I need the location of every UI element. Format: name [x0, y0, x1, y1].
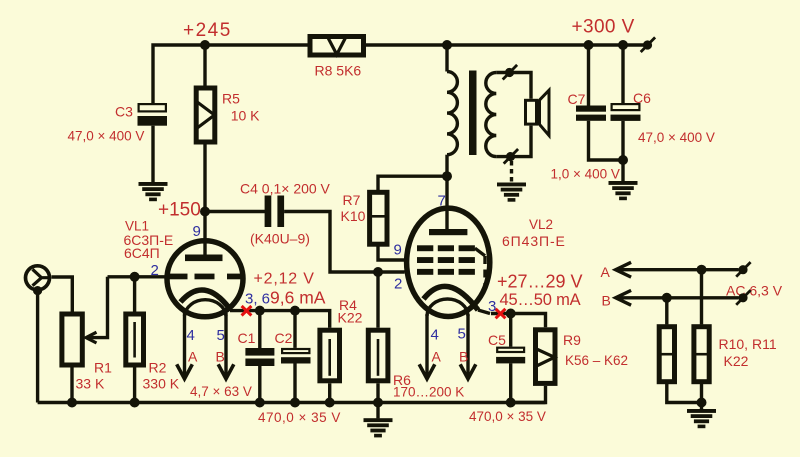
VL2 anode bar [429, 229, 467, 235]
arrow head bus B [616, 290, 632, 305]
speaker horn [540, 90, 550, 135]
svg-text:1,0 × 400 V: 1,0 × 400 V [551, 167, 620, 182]
node dot R2 bottom [130, 398, 140, 408]
svg-text:K22: K22 [338, 310, 363, 326]
node dot at C6 top [618, 40, 628, 50]
VL2 grid g1 dashes [417, 269, 433, 275]
wire: secondary bottom lead to speaker [496, 126, 531, 157]
svg-text:A: A [188, 349, 198, 365]
wire: VL1 heater leg pin 4 with arrow A [177, 313, 193, 379]
svg-text:470,0 × 35 V: 470,0 × 35 V [469, 409, 546, 424]
VL2 heater arc [427, 299, 468, 316]
capacitor C3 [138, 104, 168, 126]
capacitor C1 [245, 311, 274, 403]
connector bus A [736, 262, 750, 277]
wire: VL1 heater leg pin 5 with arrow B [218, 313, 234, 379]
node dot R2 top [130, 272, 140, 282]
connector secondary top [503, 65, 517, 80]
svg-text:C5: C5 [488, 332, 506, 348]
VL2 grid g3 dashes [417, 245, 433, 251]
node dot C5 bottom [506, 398, 516, 408]
node dot R11 top on bus A [697, 265, 707, 275]
node dot C2 bottom [290, 398, 300, 408]
resistor R6 [368, 272, 388, 403]
connector +300V supply pin [641, 37, 655, 52]
VL2 g3 internal tie diagonal top [475, 248, 485, 256]
connector secondary bottom [504, 149, 518, 164]
VL2 cathode arc [424, 286, 479, 310]
capacitor C6 [611, 45, 641, 182]
node dot C1 top [255, 306, 265, 316]
VL2 cathode lead to pin 3 [478, 310, 490, 314]
svg-text:R10, R11: R10, R11 [719, 336, 777, 352]
svg-text:VL2: VL2 [529, 217, 553, 232]
test point X VL2 cathode [496, 309, 506, 319]
test point X VL1 cathode [242, 306, 252, 316]
svg-text:C4 0,1× 200 V: C4 0,1× 200 V [240, 181, 331, 197]
node dot at R5 top [200, 40, 210, 50]
wire: input connector to R1 top [52, 277, 73, 312]
svg-text:AC 6,3 V: AC 6,3 V [726, 283, 783, 299]
svg-text:R2: R2 [149, 360, 167, 376]
wire: secondary top lead to speaker [496, 73, 531, 99]
wire: +150 node to C4 [205, 210, 265, 213]
VL1 grid dashes [170, 274, 188, 280]
svg-text:9,6 mA: 9,6 mA [270, 288, 326, 308]
capacitor C7 [576, 45, 623, 160]
node dot +150 [200, 207, 210, 217]
node dot at transformer primary top [442, 40, 452, 50]
svg-text:B: B [602, 293, 611, 309]
wiper arrow of R1 [86, 277, 108, 343]
svg-text:6С4П: 6С4П [124, 245, 160, 261]
triode VL1 [167, 212, 243, 317]
svg-text:K10: K10 [341, 208, 366, 224]
VL2 grid g2 dashes [417, 257, 433, 263]
VL2 g3 internal tie diagonal bottom [474, 290, 485, 307]
svg-text:45…50 mA: 45…50 mA [500, 291, 581, 309]
wire: top rail right segment to +300V connector [447, 43, 644, 46]
VL1 cathode arc [181, 290, 230, 309]
svg-text:+2,12 V: +2,12 V [254, 271, 315, 288]
svg-text:C7: C7 [568, 91, 586, 107]
wire: heater bus A [617, 268, 739, 271]
wire: heater bus B [617, 296, 739, 299]
wire: input connector down to ground rail [36, 291, 39, 403]
svg-text:+245: +245 [183, 20, 232, 41]
wire: bottom ground rail [38, 401, 546, 404]
VL1 anode bar [185, 255, 223, 262]
svg-text:B: B [459, 349, 468, 365]
speaker driver box [526, 100, 537, 124]
input connector [26, 266, 51, 295]
wire: C3 to ground [151, 126, 154, 183]
svg-text:4: 4 [431, 327, 439, 344]
ground below R10/R11 [687, 403, 716, 429]
wire: VL2 heater leg pin 5 with arrow B [460, 314, 476, 379]
svg-text:6П43П-Е: 6П43П-Е [502, 233, 566, 249]
capacitor C2 [281, 311, 311, 403]
svg-text:R8 5K6: R8 5K6 [315, 63, 362, 79]
svg-text:9: 9 [394, 242, 402, 259]
svg-text:R9: R9 [563, 332, 581, 348]
wire: VL2 heater leg pin 4 with arrow A [419, 314, 435, 379]
resistor R4 [320, 330, 340, 402]
svg-text:5: 5 [217, 327, 225, 344]
wire: top rail middle segment R8 to transformer [366, 43, 447, 46]
resistor R9 [511, 330, 555, 403]
svg-text:A: A [432, 349, 442, 365]
svg-text:9: 9 [193, 223, 201, 240]
resistor R2 [126, 277, 144, 403]
transformer T1 core [469, 71, 477, 156]
resistor R10 [659, 298, 701, 403]
node dot R1 bottom [67, 398, 77, 408]
node dot VL2 anode / R7 junction [442, 171, 452, 181]
svg-text:R7: R7 [343, 192, 361, 208]
wire: +245 top rail left segment [153, 45, 308, 104]
svg-text:470,0 × 35 V: 470,0 × 35 V [258, 410, 341, 425]
svg-text:(K40U–9): (K40U–9) [250, 231, 310, 247]
svg-text:R5: R5 [222, 91, 240, 107]
svg-text:C1: C1 [238, 330, 256, 346]
svg-text:+150: +150 [158, 200, 201, 221]
wire: dashed chassis link from secondary [510, 161, 513, 182]
capacitor C4 [265, 196, 285, 228]
svg-text:170…200 K: 170…200 K [393, 385, 464, 400]
node dot C1 bottom [255, 398, 265, 408]
svg-text:47,0 × 400 V: 47,0 × 400 V [68, 129, 145, 144]
svg-text:K22: K22 [724, 353, 749, 369]
svg-text:330 K: 330 K [143, 376, 180, 392]
transformer T1 secondary winding [486, 73, 497, 157]
wire: VL1 cathode rail [230, 311, 330, 328]
svg-text:A: A [601, 264, 611, 280]
svg-text:3: 3 [488, 298, 496, 315]
node dot R6 top on g1 wire [373, 267, 383, 277]
ground below speaker secondary [497, 183, 526, 202]
node dot C7/C6 bottom junction [618, 155, 628, 165]
node dot R4 bottom [325, 398, 335, 408]
VL1 heater arc [185, 300, 227, 316]
VL2 anode lead pin 7 [445, 176, 448, 229]
VL1 anode lead pin 9 [203, 212, 206, 256]
pentode VL2 [407, 176, 490, 316]
connector bus B [736, 290, 750, 305]
svg-text:+300 V: +300 V [572, 17, 635, 38]
svg-text:B: B [216, 349, 225, 365]
arrow head bus A [616, 262, 632, 277]
node dot R6 bottom [373, 398, 383, 408]
node dot at C7 top [584, 40, 594, 50]
ground below R6 [364, 403, 393, 438]
potentiometer R1 [62, 314, 82, 403]
node dot C5 top [506, 309, 516, 319]
svg-text:C6: C6 [633, 90, 651, 106]
svg-text:C3: C3 [115, 104, 133, 120]
svg-text:4,7 × 63 V: 4,7 × 63 V [190, 384, 252, 399]
resistor R7 [370, 176, 447, 260]
svg-text:4: 4 [187, 327, 195, 344]
svg-text:10 K: 10 K [231, 108, 260, 124]
ground below C3 [139, 182, 168, 201]
node dot R10/R11 bottom [697, 398, 707, 408]
svg-text:3, 6: 3, 6 [245, 291, 270, 308]
svg-text:C2: C2 [275, 330, 293, 346]
resistor R11 [694, 270, 709, 403]
svg-text:R1: R1 [94, 360, 112, 376]
transformer T1 primary winding [447, 45, 457, 176]
svg-text:33 K: 33 K [76, 376, 105, 392]
svg-text:5: 5 [458, 326, 466, 343]
resistor R8 [310, 37, 364, 56]
svg-text:7: 7 [438, 193, 446, 210]
wire: VL1 grid line [108, 275, 165, 278]
svg-text:+27…29 V: +27…29 V [497, 272, 583, 292]
node dot R10 top on bus B [662, 293, 672, 303]
node dot C2 top [290, 306, 300, 316]
svg-text:47,0 × 400 V: 47,0 × 400 V [638, 130, 715, 145]
svg-text:K56 – K62: K56 – K62 [565, 353, 628, 368]
wire: C4 to VL2 grid g1 [284, 212, 404, 273]
ground below C6 [609, 181, 638, 200]
wire: VL2 cathode to R9 [491, 314, 546, 328]
svg-text:2: 2 [394, 276, 402, 293]
resistor R5 [196, 45, 215, 212]
VL2 g3 internal tie dashed [483, 256, 486, 290]
capacitor C5 [496, 314, 525, 403]
